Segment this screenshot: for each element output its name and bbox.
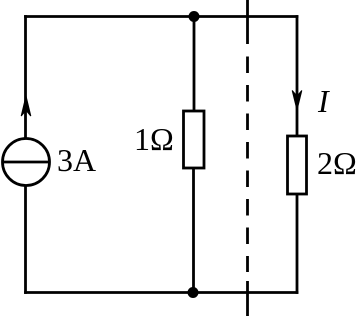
wire bottom horizontal bbox=[26, 291, 298, 294]
svg-text:2Ω: 2Ω bbox=[317, 145, 357, 181]
svg-text:I: I bbox=[317, 83, 330, 119]
resistor R2 2ohm bbox=[288, 136, 307, 194]
dashed cut line bbox=[246, 0, 249, 316]
resistor R1 1ohm bbox=[184, 111, 205, 168]
node top junction bbox=[189, 11, 200, 22]
wire middle branch upper bbox=[193, 17, 196, 112]
svg-text:3A: 3A bbox=[57, 142, 96, 178]
node bottom junction bbox=[188, 287, 199, 298]
wire middle branch lower bbox=[192, 168, 195, 293]
arrow up on source branch bbox=[21, 96, 31, 116]
wire left vertical upper bbox=[24, 17, 27, 139]
wire left vertical lower bbox=[24, 186, 27, 293]
arrow down current I bbox=[292, 91, 302, 111]
wire right vertical upper bbox=[296, 17, 299, 137]
current source I1 3A bbox=[3, 139, 50, 186]
svg-text:1Ω: 1Ω bbox=[134, 121, 174, 157]
wire right vertical lower bbox=[296, 194, 299, 293]
wire top horizontal bbox=[26, 15, 298, 18]
